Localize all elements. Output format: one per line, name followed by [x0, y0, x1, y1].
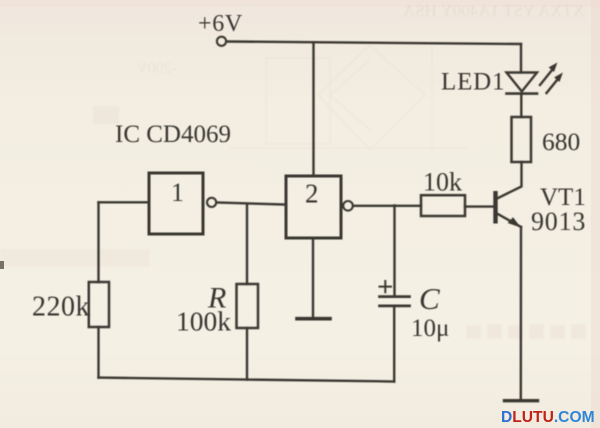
wire bottom rail	[99, 378, 395, 382]
svg-text:2: 2	[305, 179, 319, 209]
svg-text:DLUTU.COM: DLUTU.COM	[501, 409, 595, 426]
wire to capacitor	[393, 205, 395, 295]
wire gate1 to gate2	[217, 203, 287, 205]
ghost bleed-through layer	[0, 1, 586, 339]
svg-text:+6V: +6V	[198, 11, 243, 37]
capacitor C	[380, 281, 410, 306]
wire top rail	[228, 42, 522, 45]
resistor 220k	[89, 282, 109, 327]
ground (gate 2)	[297, 317, 330, 321]
node +6V terminal	[217, 37, 226, 46]
svg-text:C: C	[419, 281, 440, 316]
wire left leg	[97, 202, 99, 282]
svg-text:-200V: -200V	[136, 60, 177, 77]
svg-text:9013: 9013	[531, 207, 586, 236]
transistor VT1	[494, 192, 521, 228]
wire collector	[497, 162, 522, 199]
svg-text:1: 1	[171, 178, 184, 207]
wire 220k to bottom rail	[97, 327, 99, 378]
svg-text:10k: 10k	[423, 168, 462, 197]
wire capacitor to bottom rail	[393, 307, 395, 382]
ground (emitter)	[505, 399, 538, 402]
wire gate2 to ground	[312, 238, 314, 317]
wire rail to LED	[520, 44, 522, 73]
wire rail to gate 2	[312, 43, 314, 176]
wire gate1 input	[99, 201, 149, 203]
schematic ink	[89, 37, 562, 401]
resistor 680	[512, 117, 532, 162]
inverter gate 2	[286, 176, 353, 238]
svg-text:100k: 100k	[176, 306, 231, 337]
wire R to bottom rail	[246, 328, 248, 380]
wire gate2 output to 10k	[354, 205, 422, 207]
wire base	[465, 205, 494, 207]
resistor 10k	[421, 195, 465, 216]
svg-text:220k: 220k	[32, 292, 90, 323]
inverter gate 1	[149, 173, 216, 234]
wire to R 100k	[246, 204, 248, 284]
svg-text:XTXA YST 1A400Y HSA: XTXA YST 1A400Y HSA	[402, 1, 585, 20]
svg-text:IC CD4069: IC CD4069	[115, 121, 231, 148]
svg-text:680: 680	[542, 127, 580, 156]
svg-text:10μ: 10μ	[411, 315, 449, 342]
LED LED1	[507, 64, 563, 94]
wire emitter	[520, 227, 523, 399]
resistor R 100k	[237, 284, 259, 328]
wire LED to R 680	[520, 94, 522, 117]
svg-text:LED1: LED1	[441, 69, 505, 96]
